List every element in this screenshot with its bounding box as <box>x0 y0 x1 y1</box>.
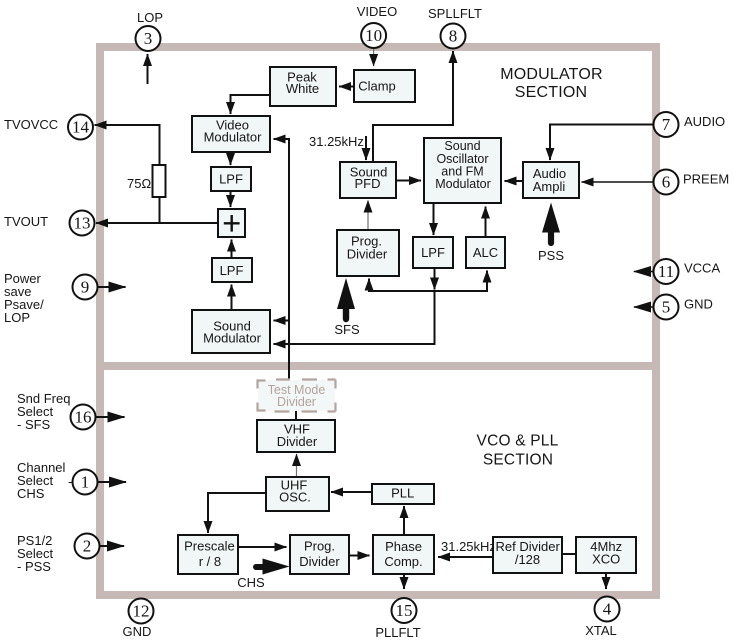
wire XCO down to pin 4 <box>605 573 607 589</box>
wire PLL to UHF OSC <box>331 491 372 493</box>
wire pin 1 stub <box>97 481 126 483</box>
svg-text:MODULATOR: MODULATOR <box>500 66 603 83</box>
pin 4 XTAL <box>585 597 619 639</box>
svg-text:Modulator: Modulator <box>204 130 262 145</box>
svg-text:31.25kHz: 31.25kHz <box>309 134 364 149</box>
svg-text:VIDEO: VIDEO <box>357 4 397 19</box>
svg-text:31.25kHz: 31.25kHz <box>441 539 496 554</box>
svg-text:LPF: LPF <box>220 263 244 278</box>
pin 14 TVOVCC <box>4 115 93 140</box>
pin 6 PREEM <box>654 170 730 195</box>
pin 2 PS select <box>17 533 100 574</box>
svg-text:SECTION: SECTION <box>515 84 588 101</box>
svg-text:- SFS: - SFS <box>17 417 51 432</box>
block VHF Divider <box>257 420 335 452</box>
wire audio ampli to sound oscillator <box>505 180 524 182</box>
svg-text:PREEM: PREEM <box>683 172 729 187</box>
pin 10 VIDEO <box>357 4 397 48</box>
block Sound Oscillator and FM Modulator <box>424 138 501 203</box>
pin 1 channel select <box>17 460 98 501</box>
thick arrow SFS <box>337 278 355 309</box>
wire pin 2 stub <box>99 545 124 547</box>
svg-text:2: 2 <box>83 537 92 556</box>
svg-text:Ampli: Ampli <box>533 179 566 194</box>
svg-text:11: 11 <box>658 262 674 281</box>
block Prog Divider pll <box>290 535 349 574</box>
wire junction to prog divider bottom <box>369 279 435 292</box>
wire feedback from test mode divider up to video modulator <box>274 139 290 380</box>
svg-text:SPLLFLT: SPLLFLT <box>428 6 482 21</box>
svg-text:4: 4 <box>603 600 612 619</box>
svg-text:Prog.: Prog. <box>304 539 335 554</box>
svg-text:XTAL: XTAL <box>585 623 617 638</box>
svg-text:OSC.: OSC. <box>279 490 311 505</box>
svg-text:SECTION: SECTION <box>483 452 553 469</box>
pin 9 power save <box>4 271 98 325</box>
outer border bottom bar <box>96 591 660 599</box>
wire clamp to peak white <box>339 86 354 88</box>
thick arrow CHS <box>263 559 290 575</box>
resistor 75ohm body <box>153 165 166 197</box>
section divider middle bar <box>96 362 660 370</box>
svg-text:CHS: CHS <box>17 486 45 501</box>
svg-text:Sound: Sound <box>444 139 480 153</box>
wire branch into sound modulator upper input <box>274 320 290 322</box>
svg-text:LPF: LPF <box>219 171 243 186</box>
svg-text:VCCA: VCCA <box>684 261 720 276</box>
wire SPLLFLT from sound PFD up to pin 8 <box>373 51 453 162</box>
wire sound modulator to LPF2 <box>231 285 233 311</box>
wire TVOUT from adder to pin 13 <box>96 222 218 224</box>
section title MODULATOR SECTION <box>500 66 603 101</box>
pin 8 SPLLFLT <box>428 6 482 49</box>
svg-text:Clamp: Clamp <box>358 79 396 94</box>
svg-text:3: 3 <box>144 29 153 48</box>
svg-text:Phase: Phase <box>385 539 422 554</box>
block LPF alc <box>413 237 453 268</box>
svg-text:White: White <box>286 81 319 96</box>
wire prog divider to phase comp <box>349 555 370 557</box>
svg-text:LOP: LOP <box>4 310 30 325</box>
svg-text:15: 15 <box>396 601 413 620</box>
svg-text:6: 6 <box>662 173 671 192</box>
svg-text:PSS: PSS <box>538 248 564 263</box>
svg-text:VCO & PLL: VCO & PLL <box>477 433 559 450</box>
pin 15 PLLFLT <box>375 598 420 640</box>
outer border right bar <box>652 43 660 599</box>
svg-text:Divider: Divider <box>277 395 316 409</box>
svg-text:8: 8 <box>449 27 458 46</box>
wire pin 11 VCCA stub <box>634 271 654 273</box>
svg-text:9: 9 <box>81 278 90 297</box>
pin 16 snd freq select <box>17 391 96 432</box>
svg-text:ALC: ALC <box>473 245 498 260</box>
svg-text:LPF: LPF <box>421 245 445 260</box>
block Sound PFD <box>340 162 396 198</box>
svg-text:-: - <box>68 474 72 489</box>
wire test mode divider to VHF divider <box>295 411 297 420</box>
wire UHF OSC to VHF divider <box>296 454 298 477</box>
wire pin 7 AUDIO to audio ampli <box>550 125 654 161</box>
adder block <box>218 209 245 237</box>
svg-text:XCO: XCO <box>592 551 620 566</box>
wire pin 6 PREEM to audio ampli <box>582 181 654 183</box>
svg-text:PFD: PFD <box>355 176 381 191</box>
svg-text:GND: GND <box>123 624 152 639</box>
wire ref divider to XCO <box>562 553 576 555</box>
svg-text:1: 1 <box>81 473 90 492</box>
outer border top bar <box>96 43 660 51</box>
wire video pin10 to clamp <box>373 48 375 66</box>
svg-text:Divider: Divider <box>347 247 388 262</box>
wire long from LPF junction into sound modulator lower input <box>274 291 435 344</box>
wire TVOVCC from resistor to pin 14 <box>95 124 161 126</box>
svg-text:75Ω: 75Ω <box>127 176 151 191</box>
svg-text:/128: /128 <box>515 552 540 567</box>
svg-text:LOP: LOP <box>137 10 163 25</box>
svg-text:Prescale: Prescale <box>184 539 235 554</box>
wire ALC up to sound oscillator <box>485 207 487 238</box>
block Video Modulator <box>192 116 270 152</box>
svg-text:SFS: SFS <box>334 322 360 337</box>
wire junction to ALC bottom <box>435 271 488 292</box>
svg-text:CHS: CHS <box>237 575 265 590</box>
svg-text:Divider: Divider <box>299 554 340 569</box>
block LPF video <box>211 167 251 191</box>
block UHF OSC <box>266 477 329 511</box>
block Prog Divider sound <box>337 230 399 276</box>
pin 13 TVOUT <box>4 211 95 236</box>
wire prog divider to sound PFD <box>367 201 369 231</box>
svg-text:12: 12 <box>133 602 150 621</box>
svg-text:- PSS: - PSS <box>17 559 51 574</box>
svg-text:14: 14 <box>72 118 90 137</box>
wire pin 16 stub <box>95 416 125 418</box>
outer border left bar <box>96 43 104 599</box>
svg-text:Modulator: Modulator <box>435 177 491 191</box>
wire phase comp to PLL <box>403 506 405 535</box>
svg-text:5: 5 <box>662 298 671 317</box>
wire peak white to video modulator <box>231 95 271 114</box>
block Test Mode Divider dashed <box>258 380 336 412</box>
pin 12 GND <box>123 599 154 640</box>
wire pin 9 stub <box>97 286 126 288</box>
thick arrow PSS <box>542 203 560 233</box>
block LPF sound <box>212 258 252 282</box>
block Clamp <box>354 70 415 102</box>
wire pin 5 GND stub <box>634 306 654 308</box>
svg-text:PLL: PLL <box>391 485 414 500</box>
wire phase comp down to pin 15 <box>403 574 405 589</box>
wire ref divider to phase comp <box>438 556 493 558</box>
block Ref Divider /128 <box>493 537 562 573</box>
block 4Mhz XCO <box>576 537 636 573</box>
wire 31.25kHz into sound PFD <box>365 136 367 160</box>
svg-text:r / 8: r / 8 <box>199 554 221 569</box>
wire prescaler to prog divider <box>238 546 287 548</box>
wire LPF to adder <box>230 191 232 207</box>
svg-text:TVOVCC: TVOVCC <box>4 117 58 132</box>
wire UHF OSC to prescaler <box>208 493 266 533</box>
svg-text:Comp.: Comp. <box>384 554 422 569</box>
svg-text:Divider: Divider <box>277 434 318 449</box>
block ALC <box>466 237 505 268</box>
block Audio Ampli <box>523 162 579 198</box>
svg-text:7: 7 <box>662 115 671 134</box>
wire sound PFD to sound oscillator <box>396 180 421 182</box>
wire LPF3 down to junction <box>434 268 436 290</box>
pin 11 VCCA <box>654 259 721 284</box>
svg-text:PLLFLT: PLLFLT <box>375 625 420 640</box>
wire resistor vertical <box>159 125 161 223</box>
wire video modulator to LPF <box>230 152 232 165</box>
pin 7 AUDIO <box>654 112 726 137</box>
pin 5 GND <box>654 295 713 320</box>
svg-text:10: 10 <box>365 26 382 45</box>
block Peak White <box>270 67 336 106</box>
wire sound oscillator to LPF3 <box>433 203 435 235</box>
svg-text:13: 13 <box>74 214 91 233</box>
wire pin 3 LOP stub <box>147 54 149 84</box>
block Prescaler r/8 <box>178 535 238 574</box>
svg-text:16: 16 <box>75 408 92 427</box>
svg-text:Modulator: Modulator <box>203 331 261 346</box>
wire LPF2 to adder <box>231 240 233 259</box>
block Phase Comp <box>373 535 434 574</box>
block Sound Modulator <box>192 310 270 353</box>
block PLL <box>372 484 434 504</box>
svg-text:TVOUT: TVOUT <box>4 214 48 229</box>
svg-text:AUDIO: AUDIO <box>684 114 725 129</box>
section title VCO & PLL SECTION <box>477 433 559 469</box>
svg-text:GND: GND <box>684 297 713 312</box>
pin 3 LOP <box>136 10 164 51</box>
